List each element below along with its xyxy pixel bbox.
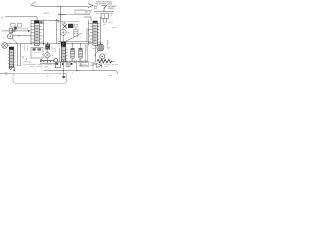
- wire y63.5: [40, 63, 58, 65]
- svg-text:pw: pw: [46, 76, 49, 78]
- label blob IC1 top right: [40, 21, 42, 23]
- wire tick x37: [36, 17, 38, 21]
- junction ticks x59 x62: [59, 14, 62, 16]
- svg-text:ww: ww: [109, 15, 113, 17]
- wire y30.9: [2, 30, 29, 32]
- IC U2 ladder right: [88, 21, 99, 45]
- wire vertical x56.5 with arrow: [56, 20, 58, 44]
- box bottom mid: [55, 62, 60, 68]
- dashed enclosure box: [13, 74, 67, 84]
- divider in top right box: [104, 14, 106, 19]
- box relay K1: [75, 11, 90, 15]
- arrow on wire: [28, 30, 30, 32]
- wire vertical x43.5: [43, 20, 45, 46]
- dashes under arrow: [89, 10, 92, 12]
- small mark: [75, 24, 78, 27]
- wire verticals x76.8: [76, 60, 78, 71]
- label C6: [68, 24, 73, 28]
- IC U4 label blob: [61, 42, 66, 47]
- wire left y17: [5, 16, 37, 18]
- lamp circle X: [45, 52, 50, 57]
- svg-text:w: w: [68, 31, 70, 34]
- box bottom-left-center: [31, 48, 43, 59]
- diagonal wire: [66, 33, 83, 41]
- resistor R1 vertical: [9, 28, 13, 32]
- wire y70.3 right: [96, 70, 117, 74]
- box with text right: [80, 61, 89, 67]
- svg-text:2: 2: [70, 59, 72, 63]
- dark dot component: [71, 63, 73, 65]
- junction dots: [60, 6, 61, 7]
- IC U4 ladder: [60, 47, 68, 62]
- wires into IC2: [103, 19, 106, 22]
- wire vertical x88.3: [87, 20, 89, 46]
- wire y14.5: [58, 14, 90, 16]
- wire y45.3 under IC: [31, 43, 60, 45]
- wire y63.8 right with plus: [92, 63, 97, 65]
- small component box C2 left: [18, 24, 22, 28]
- wire y43.6 bottom-left: [7, 43, 31, 45]
- IC U1 ladder left: [31, 21, 44, 45]
- svg-text:www: www: [44, 12, 49, 15]
- box top right: [101, 13, 109, 19]
- wire vertical x60.3 mid: [59, 23, 61, 42]
- dashes near x23-31 y61-66: [23, 62, 31, 65]
- text block top right: [94, 1, 117, 10]
- zigzag dark band: [41, 60, 55, 62]
- small hatched box: [67, 62, 71, 67]
- small component box C1 left: [11, 24, 15, 28]
- tick on top bus: [57, 6, 59, 8]
- wire vertical x60: [59, 7, 61, 23]
- wire vertical x95.6: [95, 45, 97, 62]
- crystal Y2 hatched: [79, 44, 82, 62]
- wire top bus: [38, 6, 89, 8]
- faint box right of dark comp: [52, 49, 56, 52]
- wire lead y28.5: [17, 27, 28, 29]
- wire vertical x63.6: [63, 60, 65, 72]
- arrow head on top bus: [88, 4, 93, 8]
- pot circle hatched right: [97, 44, 104, 51]
- svg-text:7: 7: [62, 43, 64, 47]
- svg-text:w: w: [52, 54, 54, 57]
- wire right x108.7: [107, 40, 109, 47]
- wire left bottom y73.7: [0, 73, 13, 75]
- text dashes row y64: [29, 63, 57, 65]
- dashes right text: [105, 64, 119, 66]
- svg-text:wswm: wswm: [108, 7, 115, 10]
- IC U3 ladder bottom-left: [8, 47, 16, 67]
- wire vertical x87: [86, 28, 88, 42]
- resistor zigzag right: [97, 59, 112, 63]
- marks (-): [97, 13, 114, 15]
- wire vertical x31: [30, 20, 32, 44]
- transistor Q1 arrow symbol top-left: [31, 1, 38, 7]
- wire y20: [31, 19, 60, 21]
- box vertical mid: [74, 29, 78, 36]
- component small box with X: [46, 45, 50, 50]
- bottom marks under U3: [9, 67, 13, 70]
- middle transistor X symbol: [63, 22, 68, 28]
- blob right of R1: [13, 30, 15, 32]
- diode triangle right: [97, 63, 102, 67]
- dark blob component: [14, 27, 17, 30]
- tick and arrow inside enclosure: [63, 72, 65, 78]
- svg-text:(-: (-: [4, 35, 6, 39]
- wire y70.6 mid: [44, 70, 96, 72]
- wire y61.6: [60, 61, 88, 63]
- crystal Y1 hatched: [71, 44, 74, 62]
- small circle right: [100, 54, 105, 59]
- transistor Q2 circle: [8, 34, 13, 39]
- connector symbol 7: [102, 6, 107, 12]
- svg-text:2w: 2w: [64, 73, 67, 75]
- dashes right of IC2: [103, 23, 117, 28]
- wire y43.7 mid-bottom: [66, 43, 92, 45]
- wire into IC2: [84, 17, 91, 21]
- label marks in box K1: [85, 12, 89, 13]
- wire verticals right of U3: [18, 44, 21, 66]
- svg-text:sw: sw: [94, 7, 97, 10]
- wire y11.5: [94, 11, 114, 13]
- wire y41.8: [58, 41, 91, 43]
- wire y21.5: [57, 21, 79, 23]
- wire vertical x100.6: [100, 18, 102, 46]
- bottom-left circle X: [2, 43, 8, 49]
- meter circle M1: [60, 29, 66, 35]
- wire segment dark y14.5: [59, 14, 67, 16]
